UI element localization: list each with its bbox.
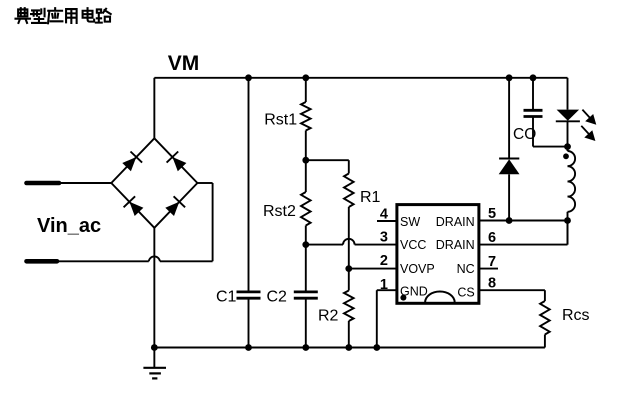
capacitor C2 bbox=[294, 292, 318, 348]
node pin5/inductor bbox=[564, 217, 571, 224]
LED emission arrows bbox=[581, 110, 596, 141]
node VCC bbox=[302, 241, 309, 248]
wire R2 bottom to ground rail bbox=[348, 321, 350, 348]
node VM/CO bbox=[530, 74, 537, 81]
wire pin 6 DRAIN up to drain node bbox=[479, 221, 568, 245]
net label VM bbox=[168, 52, 200, 75]
svg-text:Rst2: Rst2 bbox=[263, 203, 296, 220]
pin label DRAIN (pin5) bbox=[436, 215, 475, 229]
pin number 1 bbox=[380, 277, 388, 293]
pin label GND bbox=[400, 284, 428, 298]
svg-text:SW: SW bbox=[400, 215, 420, 229]
capacitor C1 bbox=[237, 292, 261, 348]
node VM/Rst1 bbox=[302, 74, 309, 81]
wire pin 1 GND to ground rail bbox=[377, 290, 397, 347]
bridge diode D-topright (R to T) bbox=[154, 138, 197, 183]
net label Vin_ac bbox=[37, 215, 101, 237]
pin number 8 bbox=[488, 276, 496, 292]
svg-text:DRAIN: DRAIN bbox=[436, 215, 475, 229]
node Rst1/Rst2/R1 bbox=[302, 157, 309, 164]
wire VM rail corner to LED bbox=[567, 78, 569, 110]
wire bridge bottom to ground rail bbox=[153, 228, 155, 348]
pin-1 indicator dot bbox=[400, 295, 406, 301]
wire Rst1 to Rst2 bbox=[305, 131, 307, 193]
svg-text:6: 6 bbox=[488, 230, 496, 246]
pin label VCC bbox=[400, 238, 426, 252]
svg-text:Rcs: Rcs bbox=[562, 307, 590, 324]
svg-text:R1: R1 bbox=[360, 189, 381, 206]
node ground/bridge bbox=[151, 344, 158, 351]
svg-text:R2: R2 bbox=[318, 308, 339, 325]
wire Vin_ac bottom to bridge right (hop over bridge-bottom wire) bbox=[57, 183, 213, 261]
bridge diode D-botright (B to R) bbox=[154, 183, 197, 228]
pin label VOVP bbox=[400, 262, 435, 276]
label Rst2 bbox=[263, 203, 296, 220]
LED D2 (cathode down) bbox=[556, 110, 580, 147]
svg-text:VM: VM bbox=[168, 52, 200, 75]
wire Rst2 to VCC node bbox=[305, 226, 307, 245]
bridge diode D-botleft (B to L) bbox=[111, 183, 154, 228]
wire pin 5 DRAIN to inductor node bbox=[479, 220, 568, 222]
node ground/R2 bbox=[345, 344, 352, 351]
pin number 3 bbox=[380, 230, 388, 246]
op-amp U1 body (8-pin controller IC) bbox=[397, 205, 479, 304]
svg-text:C2: C2 bbox=[267, 289, 288, 306]
svg-text:Vin_ac: Vin_ac bbox=[37, 215, 101, 237]
capacitor CO bbox=[524, 110, 568, 146]
label C2 bbox=[267, 289, 288, 306]
terminal Vin_ac bottom bbox=[27, 259, 58, 264]
wire VM top rail bbox=[154, 77, 567, 79]
pin label NC bbox=[457, 262, 475, 276]
svg-text:CS: CS bbox=[457, 285, 474, 299]
svg-text:2: 2 bbox=[380, 253, 388, 269]
resistor Rcs bbox=[540, 301, 550, 335]
pin 4 SW stub bbox=[377, 220, 397, 222]
label R2 bbox=[318, 308, 339, 325]
svg-text:VCC: VCC bbox=[400, 238, 426, 252]
wire VM rail to diode D1 bbox=[508, 78, 510, 159]
wire Rst node to R1 top bbox=[306, 160, 349, 173]
svg-text:C1: C1 bbox=[216, 289, 237, 306]
wire VOVP node to R2 bbox=[348, 269, 350, 291]
node CO/LED cathode bbox=[564, 143, 571, 150]
node VM/diode bbox=[506, 74, 513, 81]
svg-text:NC: NC bbox=[457, 262, 475, 276]
svg-text:1: 1 bbox=[380, 277, 388, 293]
resistor Rst2 bbox=[301, 192, 311, 226]
pin number 5 bbox=[488, 206, 496, 222]
title text 典型应用电路 (hand-drawn glyph strokes) bbox=[15, 8, 110, 23]
pin number 2 bbox=[380, 253, 388, 269]
diode D1 (freewheel, cathode up) bbox=[499, 159, 520, 221]
svg-text:8: 8 bbox=[488, 276, 496, 292]
resistor Rst1 bbox=[301, 102, 311, 131]
svg-text:5: 5 bbox=[488, 206, 496, 222]
label R1 bbox=[360, 189, 381, 206]
wire VM rail to C1 bbox=[248, 78, 250, 292]
pin label CS bbox=[457, 285, 474, 299]
wire VOVP node to pin 2 bbox=[349, 268, 397, 270]
svg-text:4: 4 bbox=[380, 207, 388, 223]
svg-text:DRAIN: DRAIN bbox=[436, 238, 475, 252]
wire VM rail to Rst1 bbox=[305, 78, 307, 102]
wire VM rail to CO bbox=[532, 78, 534, 111]
node VM/C1 bbox=[245, 74, 252, 81]
pin number 4 bbox=[380, 207, 388, 223]
label CO bbox=[513, 126, 536, 143]
svg-text:VOVP: VOVP bbox=[400, 262, 435, 276]
inductor L1 phase dot bbox=[563, 153, 569, 159]
terminal Vin_ac top bbox=[27, 181, 112, 186]
pin number 6 bbox=[488, 230, 496, 246]
node pin5/diode bbox=[506, 217, 513, 224]
svg-text:CO: CO bbox=[513, 126, 536, 143]
label Rcs bbox=[562, 307, 590, 324]
pin 7 NC stub bbox=[479, 268, 498, 270]
resistor R1 bbox=[344, 174, 354, 208]
pin number 7 bbox=[488, 254, 496, 270]
node ground/C2 bbox=[302, 344, 309, 351]
wire bottom ground rail bbox=[154, 347, 545, 349]
svg-text:3: 3 bbox=[380, 230, 388, 246]
svg-text:GND: GND bbox=[400, 284, 428, 298]
node VOVP bbox=[345, 265, 352, 272]
resistor R2 bbox=[344, 291, 354, 322]
wire R1 bottom to VOVP node bbox=[348, 207, 350, 269]
wire pin 8 CS to Rcs bbox=[479, 290, 545, 301]
node ground/GND-pin bbox=[373, 344, 380, 351]
wire Rcs bottom to ground rail bbox=[544, 335, 546, 348]
label C1 bbox=[216, 289, 237, 306]
pin label SW bbox=[400, 215, 420, 229]
node ground/C1 bbox=[245, 344, 252, 351]
svg-text:Rst1: Rst1 bbox=[264, 111, 297, 128]
ground bbox=[143, 348, 166, 379]
svg-text:7: 7 bbox=[488, 254, 496, 270]
pin label DRAIN (pin6) bbox=[436, 238, 475, 252]
wire VCC node to C2 bbox=[305, 245, 307, 292]
wire VCC node to pin 3 (hop over R1 wire) bbox=[306, 239, 397, 245]
bridge diode D-topleft (L to T) bbox=[111, 138, 154, 183]
label Rst1 bbox=[264, 111, 297, 128]
wire VM rail to bridge top bbox=[153, 78, 155, 139]
inductor L1 bbox=[568, 147, 576, 245]
